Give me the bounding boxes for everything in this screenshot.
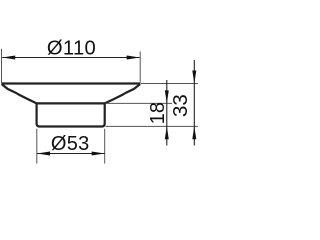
extension line right of Ø53 bbox=[104, 129, 106, 164]
extension line bottom right (base level) bbox=[106, 125, 199, 127]
extension line left of Ø53 bbox=[36, 129, 38, 164]
extension line left of Ø110 bbox=[1, 49, 3, 84]
dish outline: rim top edge bbox=[2, 82, 141, 84]
extension line top right (rim level) bbox=[141, 83, 198, 85]
svg-text:Ø110: Ø110 bbox=[47, 38, 96, 60]
extension line right of Ø110 bbox=[139, 52, 141, 84]
svg-text:18: 18 bbox=[147, 102, 169, 124]
dimension line 18 bbox=[166, 80, 168, 146]
dish outline: right slant bbox=[105, 84, 141, 103]
dish outline: left slant bbox=[2, 84, 37, 103]
arrow up 18 (tip at base level) bbox=[165, 126, 169, 139]
arrow down 33 (tip at rim level) bbox=[192, 71, 196, 84]
dimension line Ø53 bbox=[37, 153, 105, 155]
extension line middle right (cylinder top level) bbox=[106, 102, 173, 104]
arrow down 18 (tip at cylinder top level) bbox=[165, 90, 169, 103]
arrow right Ø53 bbox=[92, 152, 105, 156]
arrow up 33 (tip at base level) bbox=[192, 126, 196, 139]
dimension line Ø110 bbox=[2, 57, 139, 59]
dimension line 33 bbox=[193, 60, 195, 146]
arrow left Ø53 bbox=[37, 152, 50, 156]
arrow left Ø110 bbox=[2, 56, 15, 60]
svg-text:33: 33 bbox=[169, 94, 192, 117]
svg-text:Ø53: Ø53 bbox=[51, 133, 90, 155]
dish outline: base cylinder bbox=[37, 103, 105, 126]
arrow right Ø110 bbox=[127, 56, 140, 60]
